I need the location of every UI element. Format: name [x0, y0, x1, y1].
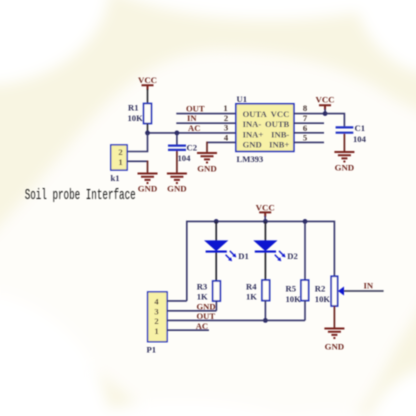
svg-text:OUTA: OUTA — [243, 109, 268, 119]
pin 7 wire — [294, 122, 324, 124]
resistor R4 1K — [246, 280, 270, 301]
capacitor C2 104 — [168, 133, 197, 173]
svg-text:R4: R4 — [246, 281, 257, 291]
wire R1 bottom to junction — [147, 124, 149, 133]
wire VCC to R1 — [147, 89, 149, 104]
svg-text:D1: D1 — [238, 251, 249, 261]
connector k1 — [111, 145, 128, 183]
ground (under C1) — [334, 152, 354, 173]
ground (under R2) — [324, 329, 344, 352]
LED D1 — [205, 241, 248, 261]
svg-text:k1: k1 — [111, 173, 120, 183]
svg-text:3: 3 — [154, 307, 158, 317]
wire P1 pin4 to rail — [167, 300, 187, 302]
wire VCC rail — [187, 221, 335, 301]
wire rail to D2 — [264, 221, 266, 241]
wire D1 to R3 — [215, 253, 217, 282]
svg-text:OUT: OUT — [186, 104, 205, 114]
svg-text:C1: C1 — [355, 123, 366, 133]
wire R5 to OUT net — [304, 301, 306, 321]
wire k1 pin1 to ground — [127, 160, 148, 162]
junction rail/D1 — [214, 219, 219, 224]
svg-text:10K: 10K — [128, 113, 144, 123]
capacitor C1 104 — [336, 123, 367, 151]
svg-text:1K: 1K — [246, 291, 257, 301]
wire R4 to OUT net — [264, 301, 266, 321]
svg-text:AC: AC — [188, 123, 200, 133]
svg-text:1K: 1K — [197, 291, 208, 301]
wire AC horizontal — [148, 132, 237, 134]
svg-text:2: 2 — [118, 147, 122, 157]
wire R2 to ground — [333, 306, 335, 328]
wire VCC stem to rail — [264, 216, 266, 221]
power port VCC (top-right) — [315, 95, 334, 111]
junction at R1/AC — [145, 131, 150, 136]
svg-text:1: 1 — [223, 103, 227, 113]
pin 6 wire — [294, 132, 324, 134]
wire to C1 — [325, 114, 344, 127]
ground (pin4 of U1) — [197, 153, 217, 174]
svg-text:R5: R5 — [286, 284, 297, 294]
power port VCC (bottom) — [256, 202, 275, 217]
wire P1 pin1 AC stub — [167, 329, 209, 331]
svg-text:VCC: VCC — [315, 95, 334, 105]
svg-text:GND: GND — [243, 140, 262, 150]
junction at C2 — [175, 131, 180, 136]
svg-text:Soil probe Interface: Soil probe Interface — [25, 187, 136, 204]
wire D2 to R4 — [264, 253, 266, 281]
wire P1 pin3 GND net — [167, 310, 216, 312]
wire rail to D1 — [215, 221, 217, 241]
pin 5 wire — [294, 141, 324, 143]
junction rail/R5 — [303, 219, 308, 224]
LED D2 — [255, 241, 298, 261]
ground (under C2) — [167, 174, 187, 194]
svg-text:U1: U1 — [237, 94, 248, 104]
svg-text:P1: P1 — [147, 345, 157, 355]
svg-text:8: 8 — [303, 103, 308, 113]
junction R4/OUT — [263, 318, 268, 323]
svg-text:C2: C2 — [187, 143, 198, 153]
resistor R3 1K — [197, 281, 221, 301]
svg-text:VCC: VCC — [271, 109, 290, 119]
svg-text:2: 2 — [224, 113, 228, 123]
wire junction down to k1 pin2 — [127, 133, 148, 152]
svg-text:VCC: VCC — [256, 202, 275, 212]
svg-text:VCC: VCC — [138, 75, 157, 85]
wire rail to R5 — [304, 221, 306, 280]
svg-text:IN: IN — [187, 113, 197, 123]
wire GND pin4 to ground — [207, 141, 236, 143]
op-amp U1 LM393 — [236, 94, 294, 164]
svg-text:3: 3 — [224, 123, 228, 133]
svg-text:LM393: LM393 — [237, 154, 264, 164]
wire IN stub from wiper — [344, 290, 384, 292]
svg-text:10K: 10K — [286, 294, 302, 304]
svg-text:R1: R1 — [128, 103, 139, 113]
svg-text:R3: R3 — [197, 281, 208, 291]
power port VCC (top-left) — [138, 75, 157, 90]
svg-text:OUTB: OUTB — [265, 119, 290, 129]
connector P1 — [147, 292, 168, 355]
svg-text:R2: R2 — [315, 284, 326, 294]
svg-text:1: 1 — [154, 326, 158, 336]
svg-text:5: 5 — [303, 133, 307, 143]
wire VCC down to pin8 — [324, 109, 326, 114]
svg-text:GND: GND — [325, 342, 345, 352]
svg-text:INA-: INA- — [243, 119, 262, 129]
svg-text:10K: 10K — [315, 294, 331, 304]
svg-text:GND: GND — [197, 164, 217, 174]
svg-text:D2: D2 — [287, 251, 298, 261]
wire P1 pin2 OUT net — [167, 319, 305, 321]
junction pin8/VCC — [323, 111, 328, 116]
svg-text:2: 2 — [154, 316, 158, 326]
wire R3 to GND net — [215, 301, 217, 311]
svg-text:GND: GND — [167, 184, 187, 194]
svg-text:104: 104 — [353, 134, 367, 144]
pin 8 wire — [294, 113, 325, 115]
svg-text:1: 1 — [118, 157, 122, 167]
svg-text:GND: GND — [138, 184, 158, 194]
svg-text:AC: AC — [196, 321, 208, 331]
svg-text:GND: GND — [335, 163, 355, 173]
svg-text:GND: GND — [197, 301, 216, 311]
wire OUT stub (pin1) — [176, 113, 236, 115]
ground (under k1) — [138, 174, 158, 194]
junction rail/D2 — [263, 219, 268, 224]
svg-text:INB-: INB- — [271, 129, 289, 139]
resistor R5 10K — [286, 280, 309, 304]
svg-text:7: 7 — [303, 113, 308, 123]
svg-text:IN: IN — [364, 281, 374, 291]
svg-text:4: 4 — [154, 297, 159, 307]
svg-text:6: 6 — [303, 123, 308, 133]
svg-text:104: 104 — [178, 153, 192, 163]
svg-text:INB+: INB+ — [269, 140, 289, 150]
svg-text:OUT: OUT — [197, 311, 216, 321]
svg-text:INA+: INA+ — [243, 129, 264, 139]
svg-text:4: 4 — [224, 133, 229, 143]
potentiometer R2 10K — [315, 276, 344, 306]
wire IN stub (pin2) — [176, 122, 236, 124]
resistor R1 10K — [128, 103, 152, 124]
